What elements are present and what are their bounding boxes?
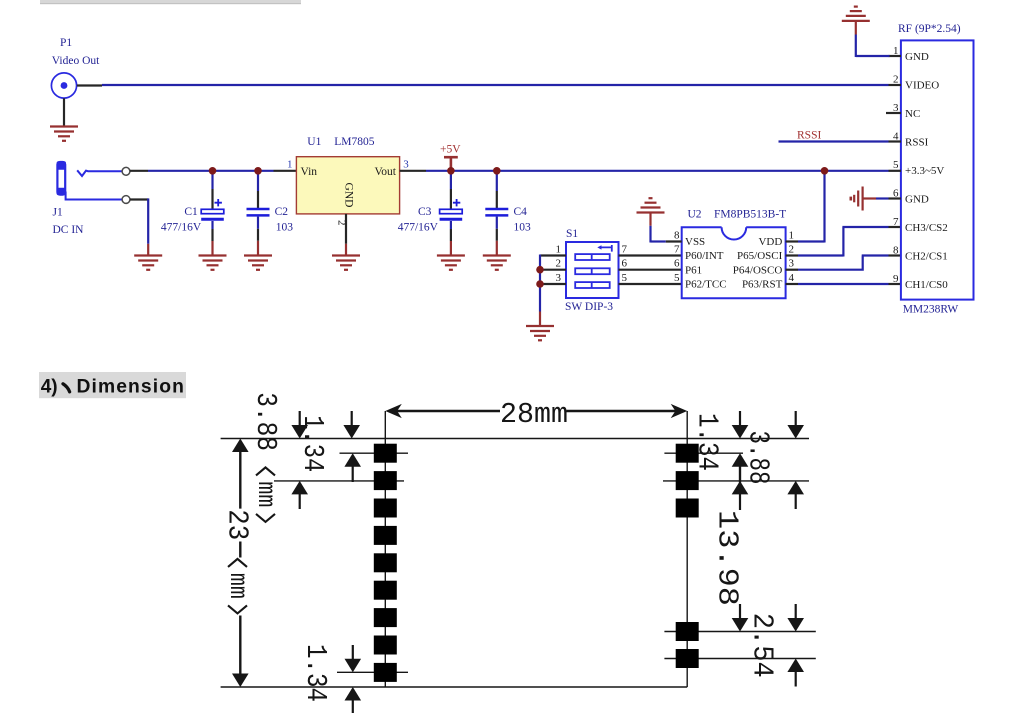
node junction C1: [209, 167, 217, 175]
wire RF pin5 rail stub: [889, 170, 902, 172]
svg-text:+5V: +5V: [440, 143, 461, 155]
connector P1: [51, 37, 100, 98]
svg-text:CH2/CS1: CH2/CS1: [905, 251, 948, 263]
pin labels S1 left: [556, 243, 562, 283]
svg-text:S1: S1: [566, 228, 578, 240]
connector RF (9P*2.54): [893, 23, 974, 316]
svg-text:7: 7: [674, 243, 680, 255]
node junction S1 pin2: [536, 266, 544, 274]
arrow 23mm up: [232, 439, 249, 453]
arrow 28mm right: [671, 404, 688, 418]
arrow 13.98 up: [732, 481, 749, 495]
ground U1: [332, 256, 360, 270]
svg-text:6: 6: [674, 258, 680, 270]
tick pad7 right: [664, 631, 815, 633]
svg-text:4: 4: [789, 272, 795, 284]
arrow 1.34 right up: [732, 453, 749, 467]
svg-text:CH3/CS2: CH3/CS2: [905, 222, 948, 234]
ground C1: [199, 256, 227, 270]
wire RF pin2 VIDEO stub: [889, 84, 902, 86]
wire U2 P65/OSCI to CH3/CS2: [786, 227, 901, 257]
svg-text:P62/TCC: P62/TCC: [685, 279, 727, 291]
svg-text:8: 8: [893, 245, 899, 257]
node J1 tip terminal: [122, 167, 130, 175]
svg-text:VSS: VSS: [685, 236, 705, 248]
svg-text:3.88: 3.88: [249, 392, 282, 451]
svg-text:mm: mm: [223, 573, 252, 599]
svg-text:U1: U1: [307, 136, 321, 148]
left pad column centerline: [384, 411, 386, 687]
wire S1 to U2 pins: [619, 256, 682, 285]
svg-text:1: 1: [287, 159, 293, 171]
svg-text:103: 103: [514, 222, 532, 234]
svg-text:RSSI: RSSI: [905, 137, 929, 149]
svg-text:1.34: 1.34: [299, 644, 332, 702]
wire J1 ground branch: [130, 198, 148, 255]
arrow 1.34 bottom down: [345, 659, 362, 673]
wire U2 VSS to ground: [651, 213, 682, 243]
arrow 23mm down: [232, 674, 249, 688]
wire P1 stub: [77, 84, 102, 86]
capacitor C2: [247, 171, 294, 256]
svg-text:23: 23: [221, 509, 254, 540]
svg-text:RF (9P*2.54): RF (9P*2.54): [898, 23, 961, 35]
svg-text:P63/RST: P63/RST: [742, 279, 783, 291]
tick pad9 left: [337, 671, 408, 673]
node junction C4: [493, 167, 501, 175]
wire J1 switch contact: [77, 170, 122, 176]
svg-text:P1: P1: [60, 37, 72, 49]
pin labels U2 left: [674, 229, 680, 283]
svg-text:2: 2: [556, 258, 562, 270]
tick pad2 left: [274, 480, 404, 482]
ground C3: [437, 256, 465, 270]
ground C2: [244, 256, 272, 270]
svg-text:1.34: 1.34: [296, 415, 329, 472]
pin labels S1 right: [622, 243, 628, 283]
wire U2 VDD to +5V rail: [786, 171, 825, 243]
node junction S1 pin3: [536, 280, 544, 288]
node junction C3: [447, 167, 455, 175]
wire Vout rail: [400, 170, 889, 172]
svg-text:J1: J1: [53, 207, 63, 219]
pin labels U2 right: [789, 229, 795, 283]
svg-text:C2: C2: [275, 206, 289, 218]
board top edge line: [221, 438, 809, 440]
ground U2 VSS (inverted): [637, 198, 665, 212]
capacitor C4: [485, 171, 531, 256]
svg-text:7: 7: [893, 216, 899, 228]
ground C4: [483, 256, 511, 270]
capacitor C1: [161, 171, 224, 256]
arrow 1.34 bottom up: [345, 687, 362, 701]
svg-text:477/16V: 477/16V: [398, 221, 439, 233]
svg-text:4): 4): [41, 376, 58, 397]
arrowheads and arrow shafts: [232, 404, 804, 701]
dim labels: [221, 392, 779, 702]
wire S1 left pins: [540, 256, 566, 285]
svg-text:103: 103: [276, 222, 294, 234]
heading 4) Dimension: [39, 372, 186, 398]
svg-text:NC: NC: [905, 108, 920, 120]
arrow 3.88 left up: [291, 481, 308, 495]
capacitor C3: [398, 171, 463, 256]
svg-text:P60/INT: P60/INT: [685, 250, 724, 262]
tick pad8 right: [664, 658, 815, 660]
svg-text:9: 9: [893, 273, 899, 285]
arrow 28mm left: [385, 404, 402, 418]
svg-text:C1: C1: [184, 206, 198, 218]
wire RF pin3 NC stub: [886, 112, 901, 114]
wire J1 sleeve to terminal: [66, 192, 122, 200]
svg-text:3: 3: [789, 258, 795, 270]
board bottom edge line: [221, 686, 688, 688]
arrow 3.88 right up: [787, 481, 804, 495]
svg-text:2.54: 2.54: [746, 613, 779, 678]
wire S1 ground bus: [539, 255, 541, 326]
svg-text:Vin: Vin: [301, 166, 318, 178]
svg-text:GND: GND: [905, 194, 929, 206]
svg-text:GND: GND: [342, 183, 354, 208]
svg-text:3: 3: [556, 272, 562, 284]
arrow 3.88 right down: [787, 425, 804, 439]
svg-text:LM7805: LM7805: [334, 136, 375, 148]
wire Vin rail: [130, 170, 296, 172]
dim line 23mm shaft: [239, 449, 241, 678]
svg-text:P61: P61: [685, 264, 702, 276]
svg-text:SW DIP-3: SW DIP-3: [565, 301, 613, 313]
svg-text:FM8PB513B-T: FM8PB513B-T: [714, 209, 786, 221]
node junction VDD rail: [821, 167, 829, 175]
pin 2 U1: [335, 220, 347, 226]
tick pad2 right: [663, 480, 809, 482]
wire RSSI net: [779, 129, 902, 141]
label 23 (mm): [221, 509, 254, 613]
svg-text:477/16V: 477/16V: [161, 221, 202, 233]
pin 1 U1: [287, 159, 293, 171]
switch S1 SW DIP-3: [565, 228, 619, 313]
svg-text:DC IN: DC IN: [53, 224, 85, 236]
svg-text:1.34: 1.34: [691, 413, 724, 471]
wire RF pin6 stub: [889, 197, 902, 199]
dim line 13.98 shaft: [739, 464, 741, 622]
svg-text:U2: U2: [688, 209, 702, 221]
arrow 2.54 up: [787, 659, 804, 673]
svg-text:Video Out: Video Out: [52, 55, 100, 67]
svg-text:1: 1: [556, 243, 562, 255]
pin 3 U1: [403, 159, 409, 171]
label 3.88 (mm) left: [249, 392, 282, 522]
ground S1: [526, 326, 554, 340]
node junction C2: [254, 167, 262, 175]
svg-text:5: 5: [674, 272, 680, 284]
svg-text:28mm: 28mm: [500, 398, 568, 431]
svg-text:mm: mm: [251, 481, 280, 507]
dim line 28mm shaft: [396, 410, 676, 413]
arrow 3.88 left down: [291, 425, 308, 439]
arrow 2.54 down: [787, 618, 804, 632]
IC U2 FM8PB513B-T: [682, 209, 787, 299]
svg-text:VIDEO: VIDEO: [905, 80, 939, 92]
svg-text:3.88: 3.88: [742, 431, 775, 485]
svg-text:Vout: Vout: [374, 166, 396, 178]
connector J1: [53, 161, 85, 236]
wire U2 P64/OSCO to CH2/CS1: [786, 256, 901, 271]
svg-text:6: 6: [622, 258, 628, 270]
wire P1 ground stub: [63, 98, 65, 126]
node J1 sleeve terminal: [122, 196, 130, 204]
svg-text:8: 8: [674, 229, 680, 241]
wire U2 P63/RST to CH1/CS0: [786, 283, 901, 285]
heading bar (cut off at top): [40, 0, 301, 4]
svg-text:Dimension: Dimension: [77, 376, 185, 397]
svg-text:P64/OSCO: P64/OSCO: [733, 264, 783, 276]
ground RF pin6 (rotated signal ground): [851, 187, 889, 211]
svg-text:3: 3: [403, 159, 409, 171]
svg-text:VDD: VDD: [758, 236, 782, 248]
tick pad1 left: [340, 452, 409, 454]
svg-text:2: 2: [893, 74, 899, 86]
right pad column centerline: [686, 411, 688, 687]
svg-text:13.98: 13.98: [711, 510, 744, 606]
svg-text:1: 1: [789, 229, 795, 241]
svg-text:GND: GND: [905, 51, 929, 63]
ground P1: [50, 127, 78, 141]
svg-text:5: 5: [622, 272, 628, 284]
svg-text:+3.3~5V: +3.3~5V: [905, 165, 944, 177]
svg-text:C3: C3: [418, 206, 432, 218]
wire RF pin1 to ground: [856, 21, 901, 57]
left pad column pads: [374, 444, 397, 682]
svg-text:2: 2: [789, 243, 795, 255]
arrow 1.34 left down: [343, 425, 360, 439]
svg-text:CH1/CS0: CH1/CS0: [905, 279, 948, 291]
tick pad1 right: [664, 452, 743, 454]
right pad column pads: [676, 444, 699, 668]
wire U1 ground pin: [345, 214, 347, 255]
arrow 13.98 down: [732, 618, 749, 632]
dimension drawing: [221, 411, 816, 687]
arrow shafts vertical: [300, 411, 796, 713]
arrow 1.34 left up: [344, 453, 361, 467]
svg-text:MM238RW: MM238RW: [903, 304, 959, 316]
ground J1 branch: [134, 256, 162, 270]
svg-text:C4: C4: [514, 206, 528, 218]
svg-text:P65/OSCI: P65/OSCI: [737, 250, 783, 262]
ground RF top (inverted): [842, 7, 870, 21]
arrow 1.34 right down: [732, 425, 749, 439]
op-amp U1 regulator LM7805: [296, 136, 399, 214]
power +5V: [440, 143, 461, 171]
svg-text:7: 7: [622, 243, 628, 255]
svg-text:RSSI: RSSI: [797, 129, 821, 141]
wire VIDEO net: [102, 84, 889, 86]
svg-text:5: 5: [893, 159, 899, 171]
